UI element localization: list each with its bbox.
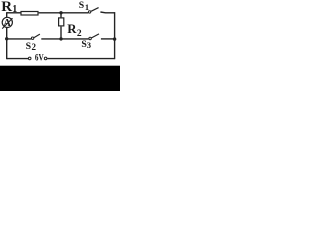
ammeter A (arrowhead)	[10, 18, 13, 21]
resistor R1 (body)	[21, 12, 38, 16]
svg-text:1: 1	[85, 2, 89, 12]
wire: middle horizontal from R2 junction to S3	[61, 38, 89, 40]
wire: bottom horizontal right of battery	[47, 58, 114, 60]
node: right middle junction	[113, 37, 116, 40]
switch S3 (blade)	[92, 34, 100, 38]
svg-text:S: S	[79, 0, 84, 11]
battery terminal (left circle)	[28, 57, 31, 60]
ammeter A (circle)	[2, 17, 12, 27]
svg-text:2: 2	[32, 42, 37, 52]
battery terminal (right circle)	[44, 57, 47, 60]
wire: top middle from R1 to S1	[39, 12, 89, 14]
wire: middle horizontal from left junction to S2	[7, 38, 31, 40]
node: left middle junction	[5, 37, 8, 40]
svg-text:6V: 6V	[35, 52, 44, 63]
wire: left vertical between ammeter and junction	[6, 28, 8, 39]
wire: top-left corner down (left wire upper)	[6, 12, 8, 17]
wire: top-left horizontal from corner to R1	[7, 12, 21, 14]
svg-text:3: 3	[87, 40, 91, 50]
resistor R2 (body)	[59, 18, 64, 26]
wire: middle horizontal from S2 to R2 junction	[41, 38, 61, 40]
node: middle junction below R2	[59, 37, 62, 40]
resistor R2 (top lead)	[60, 13, 62, 18]
wire: bottom horizontal left of battery	[7, 58, 28, 60]
svg-text:2: 2	[77, 29, 82, 39]
ammeter A (needle arrow)	[2, 18, 12, 28]
wire: top-right from S1 to corner	[100, 11, 114, 14]
svg-text:R: R	[1, 0, 12, 15]
svg-text:1: 1	[12, 4, 17, 15]
switch S2 (blade)	[34, 34, 40, 38]
resistor R2 (bottom lead)	[60, 27, 62, 39]
node: top junction above R2	[59, 11, 62, 14]
wire: left vertical lower	[6, 39, 8, 59]
wire: right vertical	[114, 12, 116, 59]
switch S2 (pivot circle)	[31, 37, 33, 39]
svg-text:R: R	[67, 22, 77, 36]
wire: middle horizontal from S3 to right wire	[101, 38, 115, 40]
switch S1 (pivot circle)	[88, 11, 90, 13]
switch S3 (pivot circle)	[89, 37, 91, 39]
black bar at bottom	[0, 66, 120, 91]
switch S1 (blade)	[91, 8, 99, 12]
